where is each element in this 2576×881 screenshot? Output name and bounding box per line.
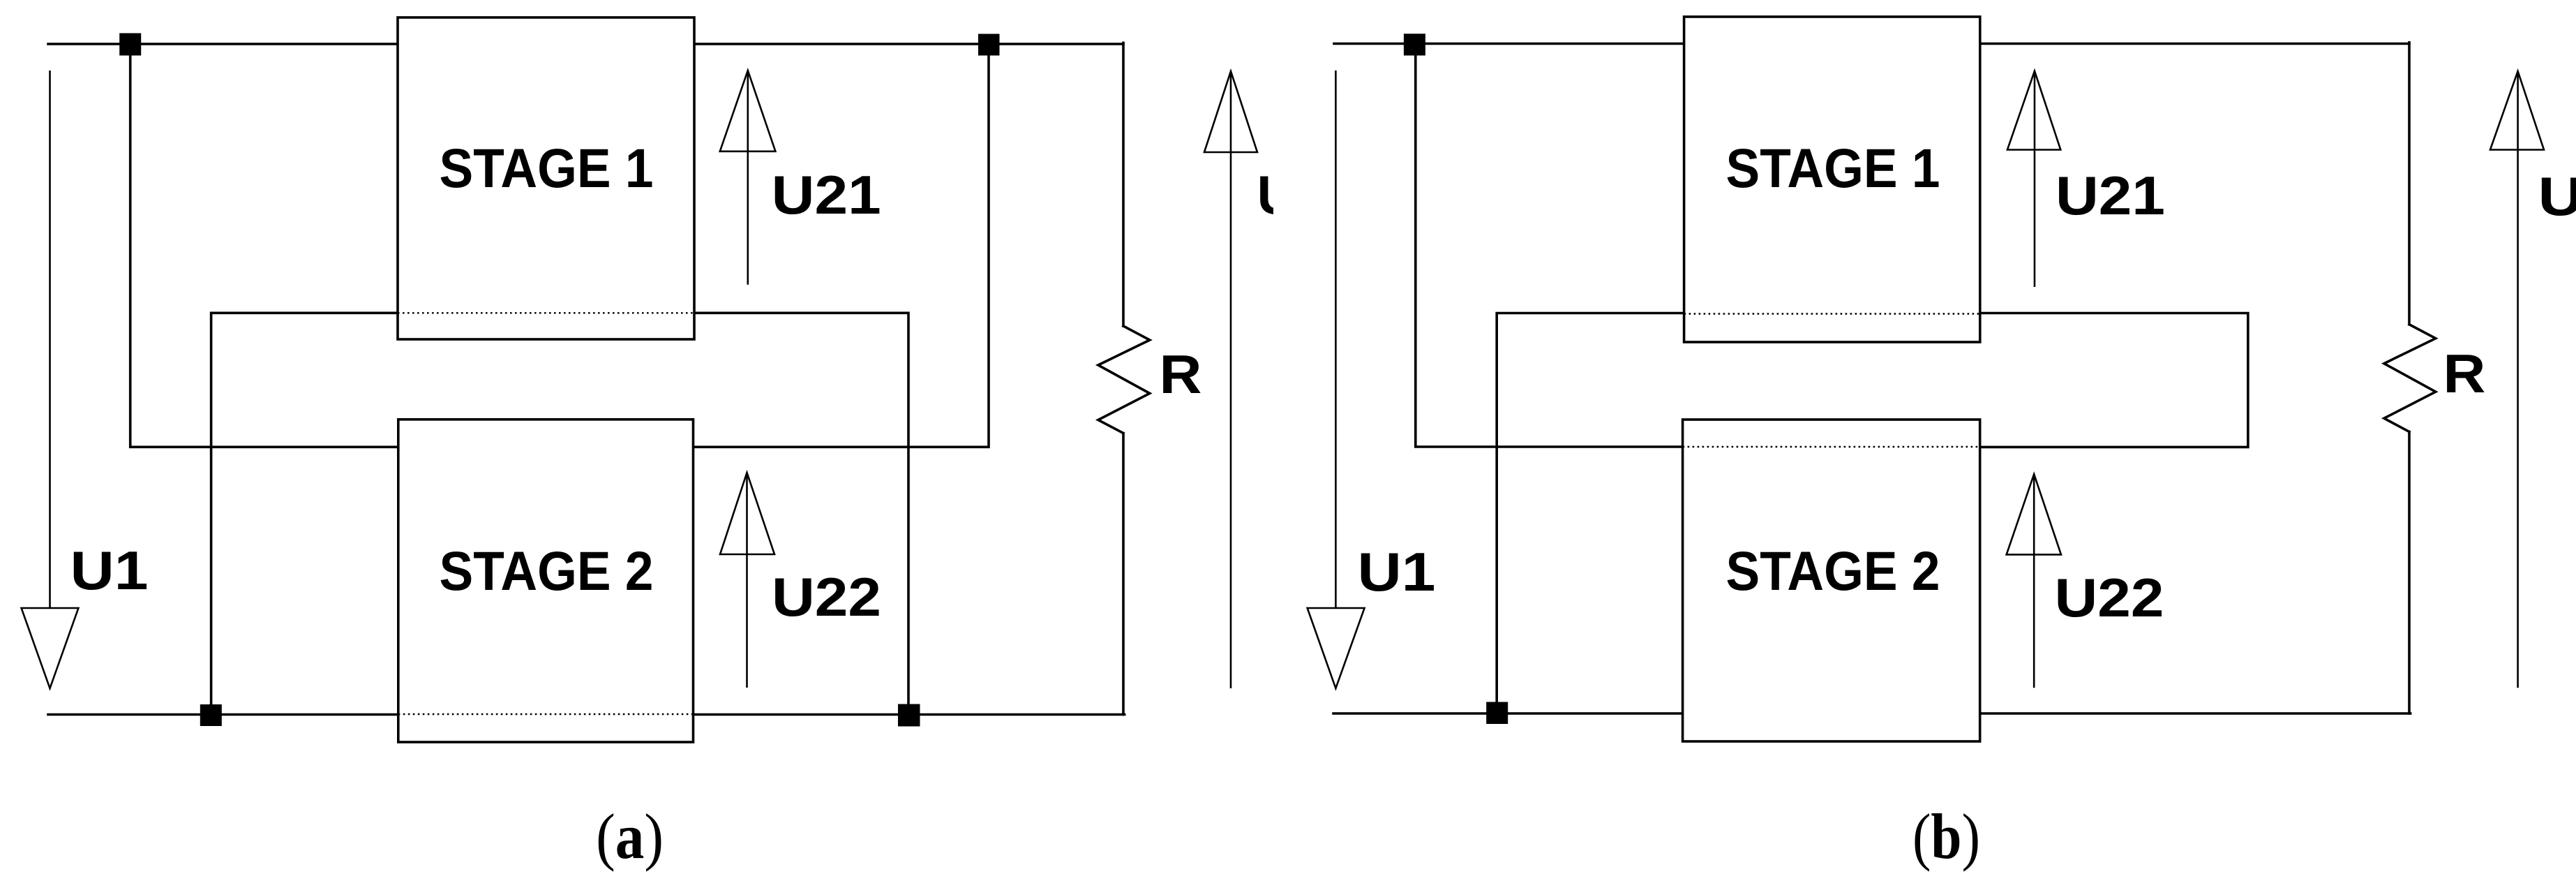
svg-text:(b): (b) bbox=[1912, 801, 1980, 872]
wire top bus a bbox=[48, 43, 1123, 45]
wire resistor feed right a bbox=[1122, 43, 1125, 326]
svg-text:R: R bbox=[2443, 343, 2486, 404]
wire node2 drop to stage2 right a bbox=[694, 44, 989, 447]
wire stage1 out left to bottom a bbox=[211, 313, 398, 714]
wire stage1 out left to bottom b bbox=[1497, 313, 1684, 714]
wire resistor to bottom b bbox=[2408, 432, 2411, 714]
svg-text:U22: U22 bbox=[2055, 567, 2164, 628]
svg-text:STAGE 1: STAGE 1 bbox=[1726, 137, 1940, 199]
wire resistor to bottom a bbox=[1122, 434, 1125, 715]
arrow U output b bbox=[2490, 71, 2544, 688]
svg-text:STAGE 1: STAGE 1 bbox=[440, 137, 654, 199]
svg-text:(a): (a) bbox=[596, 801, 664, 872]
arrow U1 b bbox=[1308, 71, 1365, 688]
wire stage1 out right loop to stage2 b bbox=[1980, 313, 2248, 447]
junction node top-right a bbox=[978, 34, 1000, 56]
arrow U1 a bbox=[22, 71, 79, 688]
svg-text:STAGE 2: STAGE 2 bbox=[440, 540, 654, 602]
block STAGE 1 box a bbox=[398, 17, 694, 339]
svg-text:U1: U1 bbox=[70, 540, 149, 601]
wire top bus b bbox=[1334, 43, 2409, 45]
dotted secondary winding line stage1 b bbox=[1684, 313, 1980, 314]
svg-text:U22: U22 bbox=[772, 566, 881, 628]
wire resistor feed right b bbox=[2408, 43, 2411, 325]
svg-text:U1: U1 bbox=[1358, 541, 1436, 602]
block STAGE 2 box b bbox=[1683, 420, 1980, 741]
block STAGE 1 box b bbox=[1684, 17, 1980, 342]
arrow U22 a bbox=[720, 473, 774, 688]
svg-text:U: U bbox=[2538, 165, 2576, 227]
svg-text:STAGE 2: STAGE 2 bbox=[1726, 540, 1940, 602]
dotted secondary winding line stage2 a bbox=[398, 713, 694, 715]
junction node top-left a bbox=[119, 34, 141, 56]
wire bottom bus b bbox=[1333, 712, 2411, 715]
junction node bottom-left a bbox=[200, 704, 222, 726]
dotted secondary winding line stage2 b bbox=[1683, 446, 1980, 447]
arrow U21 b bbox=[2007, 71, 2060, 287]
wire node1 drop to stage2 a bbox=[130, 44, 398, 447]
wire node1 drop to stage2 b bbox=[1416, 44, 1683, 447]
junction node top-left b bbox=[1404, 34, 1425, 55]
wire bottom bus a bbox=[48, 713, 1125, 716]
junction node bottom-left b bbox=[1486, 702, 1508, 725]
arrow U21 a bbox=[720, 71, 776, 285]
arrow U22 b bbox=[2007, 474, 2061, 688]
wire stage1 out right to bottom a bbox=[694, 313, 908, 714]
junction node bottom-right a bbox=[898, 704, 920, 727]
resistor R zigzag b bbox=[2384, 325, 2436, 432]
dotted secondary winding line stage1 a bbox=[398, 312, 694, 313]
svg-text:R: R bbox=[1160, 343, 1202, 405]
arrow U output a bbox=[1204, 71, 1257, 688]
svg-text:U21: U21 bbox=[772, 164, 881, 225]
svg-text:U21: U21 bbox=[2055, 165, 2165, 226]
block STAGE 2 box a bbox=[398, 420, 694, 742]
resistor R zigzag a bbox=[1098, 326, 1150, 434]
svg-text:U: U bbox=[1257, 164, 1296, 225]
